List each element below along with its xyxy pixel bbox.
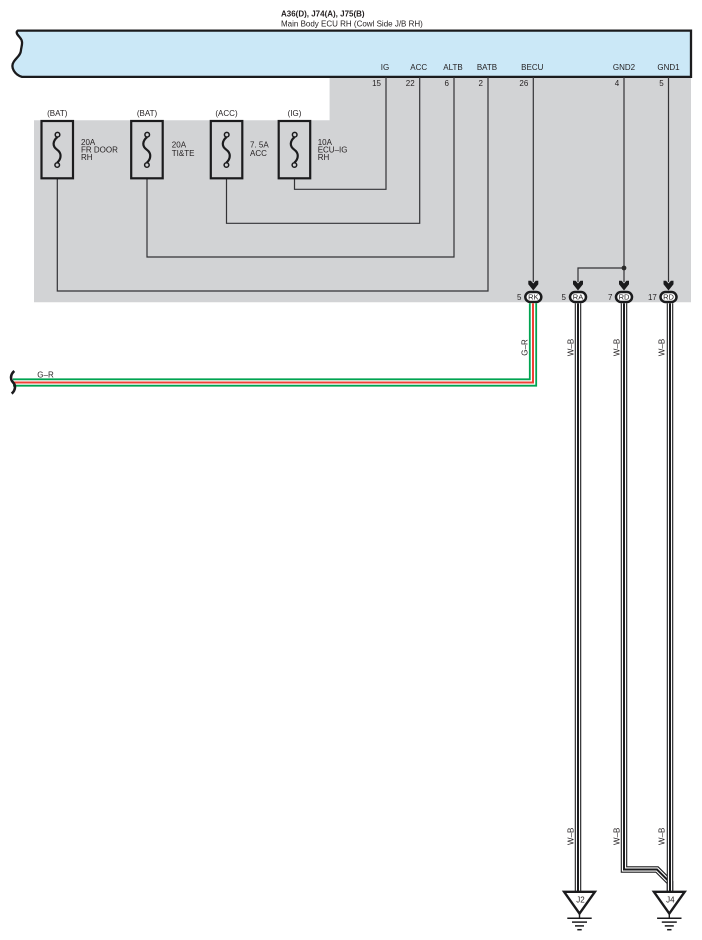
svg-text:TI&TE: TI&TE (172, 149, 195, 158)
svg-text:GND1: GND1 (657, 63, 680, 72)
svg-text:5: 5 (562, 293, 567, 302)
svg-text:G–R: G–R (521, 339, 530, 356)
fuse F1 box (BAT) 20A FR DOOR RH (42, 109, 119, 178)
wire branch GND2 to connector RA (578, 268, 624, 282)
wire fuse F2 to pin ALTB (147, 77, 454, 257)
svg-text:BATB: BATB (477, 63, 497, 72)
connector RK oval (525, 292, 541, 302)
svg-text:15: 15 (372, 79, 381, 88)
connector RD (pin 17) oval (661, 292, 677, 302)
connector arrow into RK pin 5 (528, 281, 538, 291)
wire W-B from RD (7) joining ground J4 (624, 303, 670, 891)
fuse F3 box (ACC) 7.5A ACC (211, 109, 270, 178)
svg-text:5: 5 (659, 79, 664, 88)
wire pin GND2 down to connector RD (623, 77, 625, 282)
ECU bar A36/J74/J75 (Main Body ECU RH) (12, 31, 691, 77)
svg-text:ACC: ACC (410, 63, 427, 72)
wire G-R from RK to left edge (13, 303, 533, 382)
svg-text:(ACC): (ACC) (215, 109, 238, 118)
svg-text:26: 26 (519, 79, 528, 88)
svg-text:RD: RD (663, 293, 674, 302)
svg-text:RA: RA (573, 293, 583, 302)
fuse F2 box (BAT) 20A TI&TE (131, 109, 194, 178)
svg-text:RH: RH (318, 153, 330, 162)
svg-text:6: 6 (445, 79, 450, 88)
svg-text:G–R: G–R (37, 370, 54, 379)
junction dot on GND2 wire (622, 266, 627, 271)
svg-text:W–B: W–B (567, 339, 576, 356)
wire fuse F4 to pin IG (295, 77, 387, 189)
fuse F4 box (IG) 10A ECU-IG RH (279, 109, 348, 178)
svg-text:5: 5 (517, 293, 522, 302)
svg-text:Main Body ECU RH (Cowl Side J/: Main Body ECU RH (Cowl Side J/B RH) (281, 20, 423, 29)
wire W-B from RD (17) to ground J4 (667, 303, 674, 891)
svg-text:J2: J2 (576, 895, 585, 904)
svg-text:ACC: ACC (250, 149, 267, 158)
connector arrow into RA pin 5 (573, 281, 583, 291)
svg-text:(BAT): (BAT) (47, 109, 68, 118)
svg-text:GND2: GND2 (613, 63, 636, 72)
svg-text:RD: RD (619, 293, 630, 302)
svg-text:BECU: BECU (521, 63, 543, 72)
wire fuse F1 to pin BATB (57, 77, 488, 291)
svg-text:A36(D), J74(A), J75(B): A36(D), J74(A), J75(B) (281, 10, 365, 19)
svg-text:4: 4 (615, 79, 620, 88)
svg-text:(IG): (IG) (288, 109, 302, 118)
svg-text:J4: J4 (666, 895, 675, 904)
ground J4 (654, 892, 685, 930)
svg-text:W–B: W–B (658, 828, 667, 845)
wire pin BECU down to connector RK (532, 77, 534, 282)
wire G-R left continuation squiggle (11, 371, 15, 394)
wire pin GND1 down to connector RD (668, 77, 670, 282)
svg-text:22: 22 (406, 79, 415, 88)
svg-text:W–B: W–B (613, 828, 622, 845)
svg-text:2: 2 (479, 79, 484, 88)
connector arrow into RD pin 7 (619, 281, 629, 291)
connector arrow into RD pin 17 (664, 281, 674, 291)
connector RD (pin 7) oval (616, 292, 632, 302)
svg-text:(BAT): (BAT) (137, 109, 158, 118)
ground J2 (564, 892, 595, 930)
connector RA oval (570, 292, 586, 302)
svg-text:IG: IG (381, 63, 389, 72)
wire fuse F3 to pin ACC (227, 77, 420, 223)
junction block shaded background (34, 77, 691, 302)
svg-text:7: 7 (608, 293, 613, 302)
svg-text:ALTB: ALTB (443, 63, 462, 72)
svg-text:W–B: W–B (613, 339, 622, 356)
svg-text:17: 17 (648, 293, 657, 302)
wire W-B from RA to ground J2 (575, 303, 582, 891)
svg-text:W–B: W–B (567, 828, 576, 845)
svg-text:RH: RH (81, 153, 93, 162)
svg-text:W–B: W–B (658, 339, 667, 356)
svg-text:RK: RK (528, 293, 538, 302)
